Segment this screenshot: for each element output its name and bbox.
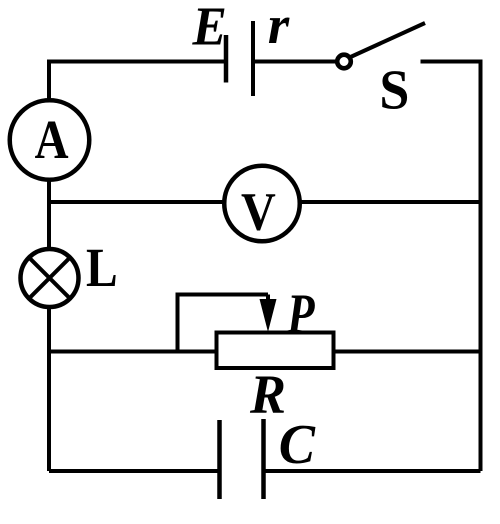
svg-text:V: V xyxy=(241,182,276,242)
capacitor plate right xyxy=(261,419,266,499)
svg-text:A: A xyxy=(35,111,69,171)
battery cell: short plate xyxy=(224,35,229,83)
rheostat wiper arrowhead xyxy=(260,299,277,332)
svg-text:P: P xyxy=(286,283,315,345)
wire: bottom row left of capacitor xyxy=(49,469,220,473)
switch S pivot circle xyxy=(337,55,351,69)
switch S lever xyxy=(351,23,426,57)
svg-text:E: E xyxy=(192,0,227,57)
voltmeter V circle xyxy=(224,166,300,242)
wire: voltmeter row xyxy=(49,200,481,204)
rheostat wiper arrow stem xyxy=(266,295,270,319)
wire: right vertical branch xyxy=(479,60,483,472)
capacitor plate left xyxy=(217,420,222,499)
rheostat wiper wire xyxy=(178,295,269,352)
wire: switch to top-right corner xyxy=(421,60,481,64)
rheostat R body xyxy=(217,333,334,369)
svg-text:C: C xyxy=(279,413,316,475)
svg-text:r: r xyxy=(268,0,290,55)
wire: battery to switch xyxy=(253,60,338,64)
wire: bottom row right of capacitor xyxy=(264,469,481,473)
wire: left vertical branch xyxy=(47,62,51,472)
lamp L circle xyxy=(21,249,79,307)
svg-text:S: S xyxy=(379,58,409,120)
wire: top row from left corner to battery xyxy=(47,60,226,64)
svg-text:L: L xyxy=(86,238,118,299)
battery cell: long plate xyxy=(251,21,255,96)
lamp L cross stroke 1 xyxy=(28,257,70,299)
ammeter A circle xyxy=(10,100,90,180)
wire: rheostat row xyxy=(49,350,481,354)
lamp L cross stroke 2 xyxy=(28,257,70,299)
